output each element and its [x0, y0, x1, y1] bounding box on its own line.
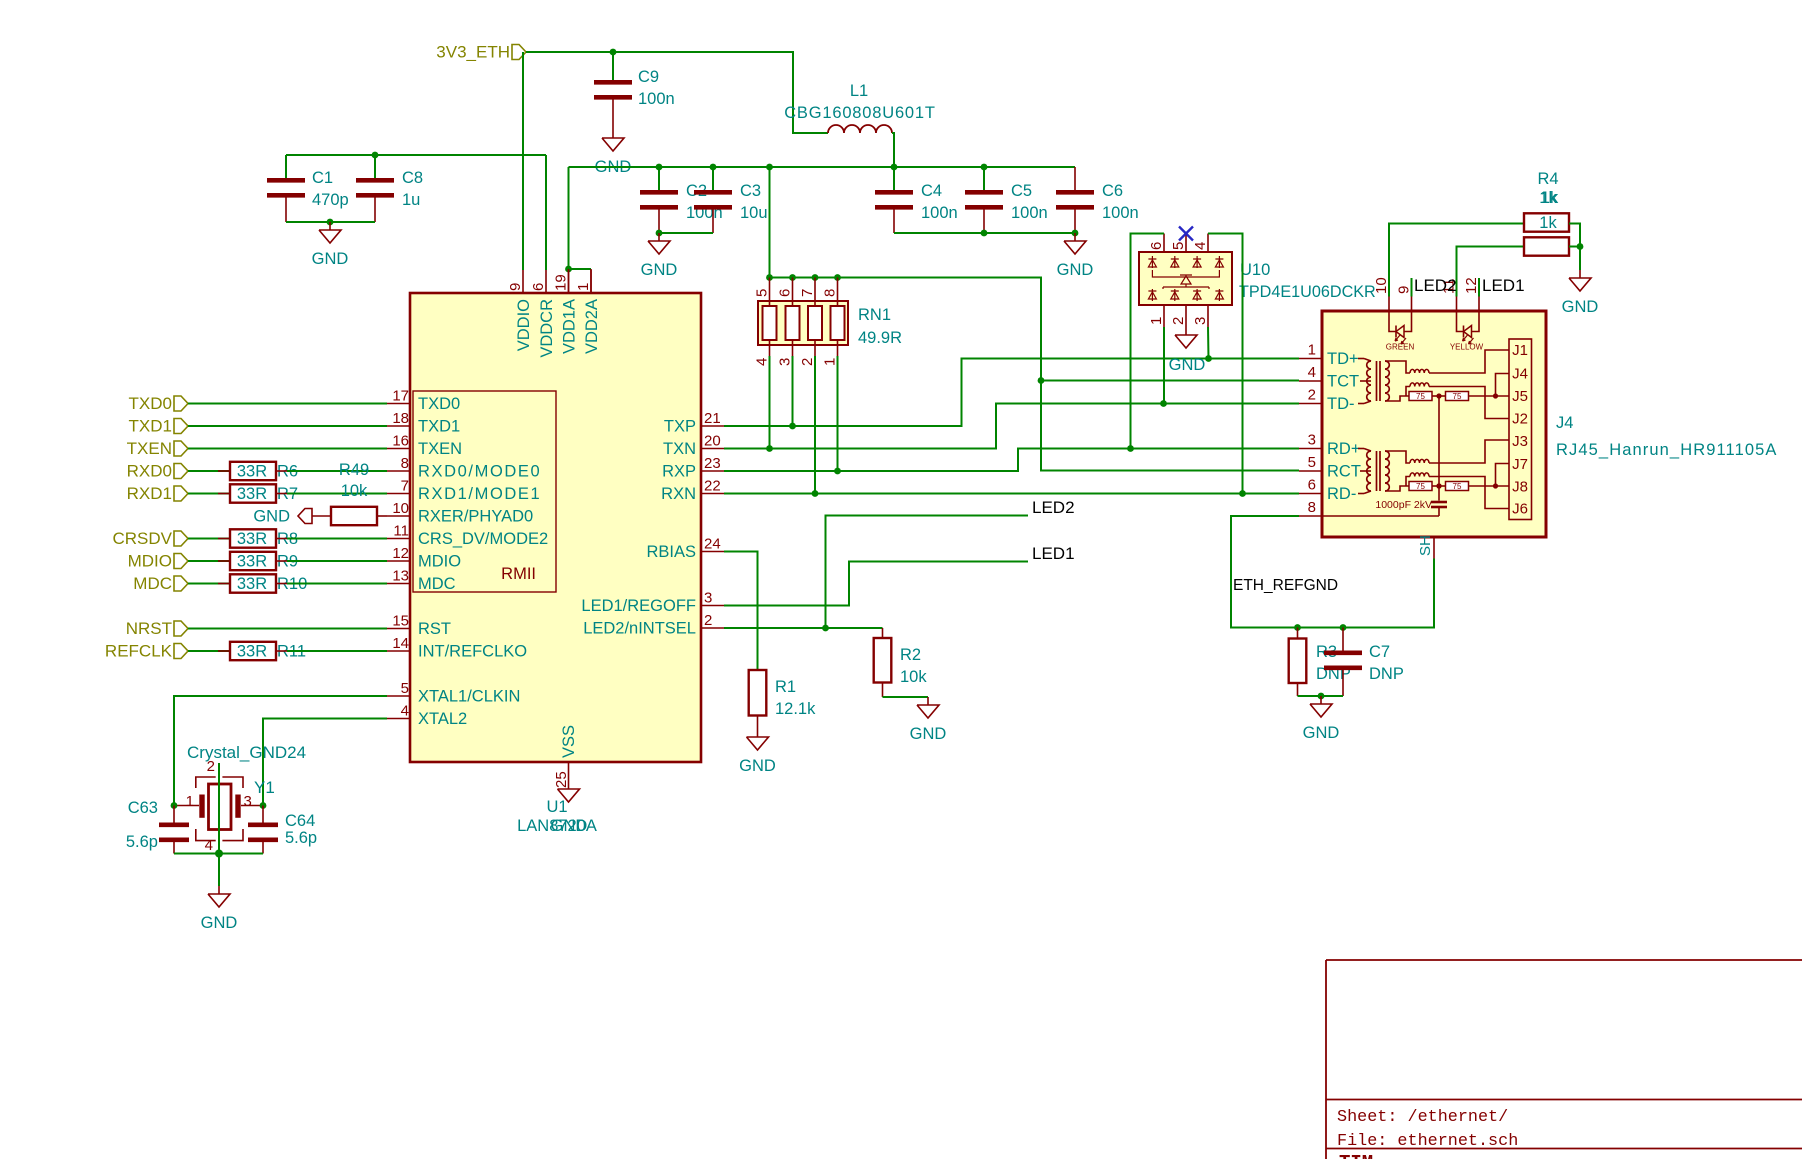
svg-text:19: 19 [553, 274, 570, 291]
svg-text:RBIAS: RBIAS [646, 543, 696, 561]
svg-text:C3: C3 [740, 182, 761, 200]
pin 14 INT/REFCLKO (U1 left) [387, 650, 410, 652]
junction C2 bottom [656, 230, 663, 237]
wire TCT to J4 pin4 [1041, 380, 1299, 382]
capacitor C3 10u [712, 167, 714, 190]
pin 4 J4 left [1299, 380, 1322, 382]
svg-text:8: 8 [1308, 499, 1316, 516]
svg-text:1: 1 [186, 793, 194, 810]
svg-text:J2: J2 [1512, 411, 1528, 428]
resistor R4 1k (bottom) [1524, 237, 1569, 255]
wire VDD1A/VDD2A [569, 167, 592, 269]
wire U10 pin6 to RD+ [1131, 234, 1165, 449]
svg-text:TXD1: TXD1 [129, 417, 172, 436]
ground below R2 [927, 697, 929, 705]
pin 10 RXER/PHYAD0 (U1 left) [387, 515, 410, 517]
svg-text:TXEN: TXEN [418, 440, 462, 458]
pin 11 CRS_DV/MODE2 (U1 left) [387, 538, 410, 540]
svg-text:DNP: DNP [1369, 665, 1404, 683]
svg-text:9: 9 [507, 283, 524, 291]
capacitor C7 DNP [1342, 628, 1344, 651]
J4 secondary bottom to 75R row [1385, 486, 1409, 491]
J4 secondary to choke1 [1385, 451, 1410, 463]
wire TXD1 [188, 425, 387, 427]
pin 7 RXD1/MODE1|ls (U1 left) [387, 493, 410, 495]
svg-text:VSS: VSS [560, 725, 578, 758]
ground below U1 VSS [568, 781, 570, 789]
svg-text:J4: J4 [1512, 366, 1528, 383]
svg-text:3: 3 [1192, 317, 1209, 325]
svg-text:R4: R4 [1537, 170, 1558, 188]
resistor R10 33R [188, 583, 230, 585]
svg-text:5.6p: 5.6p [285, 829, 317, 847]
pin 8 J4 left [1299, 515, 1322, 517]
wire LED1 from pin3 [724, 562, 1028, 606]
svg-text:4: 4 [754, 358, 771, 366]
capacitor C5 100n [983, 167, 985, 190]
ic U1 LAN8720A body [410, 293, 701, 762]
capacitor C9 100n [612, 52, 614, 80]
svg-text:L1: L1 [850, 82, 868, 100]
svg-text:RXP: RXP [662, 463, 696, 481]
svg-text:RXD0/MODE0: RXD0/MODE0 [418, 463, 541, 481]
svg-text:GND: GND [739, 757, 776, 775]
pin 4 XTAL2 (U1 left) [387, 718, 410, 720]
junction TD+/U10 pin3 [1205, 355, 1212, 362]
svg-text:MDIO: MDIO [128, 552, 172, 571]
pin 4 U10 top [1207, 234, 1209, 253]
title block frame [1325, 960, 1327, 1159]
pin 2 LED2/nINTSEL (U1 right) [701, 627, 724, 629]
junction rail at C5 [981, 164, 988, 171]
wire TXEN [188, 448, 387, 450]
ic U10 TPD4E1U06DCKR body [1139, 252, 1232, 305]
svg-text:11: 11 [393, 523, 409, 540]
J4 choke1 to jack pin [1429, 440, 1509, 463]
junction RD-/U10 pin4 [1239, 490, 1246, 497]
wire RBIAS to R1 [724, 552, 758, 671]
svg-text:33R: 33R [237, 530, 267, 548]
svg-text:R2: R2 [900, 646, 921, 664]
svg-text:TD-: TD- [1327, 395, 1355, 413]
wire rail 3V3 after L1 [569, 166, 1076, 168]
pin 6 VDDCR (U1 top) [545, 270, 547, 293]
junction C8 top [372, 152, 379, 159]
svg-text:TPD4E1U06DCKR: TPD4E1U06DCKR [1239, 283, 1376, 301]
svg-text:TXD1: TXD1 [418, 418, 460, 436]
svg-text:U1: U1 [546, 798, 567, 816]
wire XTAL2 to crystal [263, 719, 387, 806]
svg-text:RXD0: RXD0 [127, 462, 172, 481]
wire RN1 pin2 to RXN [814, 356, 816, 494]
J4 secondary to choke1 [1385, 361, 1410, 373]
svg-text:5.6p: 5.6p [126, 833, 158, 851]
svg-text:C1: C1 [312, 169, 333, 187]
svg-text:LED2/nINTSEL: LED2/nINTSEL [583, 620, 696, 638]
svg-text:1: 1 [1148, 317, 1165, 325]
svg-text:CRS_DV/MODE2: CRS_DV/MODE2 [418, 530, 548, 548]
svg-text:RMII: RMII [501, 565, 536, 583]
junction rail at RN1 feed [766, 164, 773, 171]
svg-text:100n: 100n [638, 90, 675, 108]
junction XTAL1 / C63 [171, 802, 178, 809]
svg-text:VDD2A: VDD2A [583, 299, 601, 354]
J4 choke1 [1410, 369, 1429, 373]
svg-text:15: 15 [392, 613, 409, 630]
svg-text:49.9R: 49.9R [858, 329, 902, 347]
J4 internal green LED [1389, 311, 1396, 332]
svg-text:24: 24 [704, 536, 721, 553]
svg-text:20: 20 [704, 433, 721, 450]
ground below R1 [757, 729, 759, 737]
svg-text:1k: 1k [1541, 189, 1559, 207]
svg-text:C7: C7 [1369, 643, 1390, 661]
pin 6 U10 top [1163, 234, 1165, 253]
wire 3V3 rail to RN1 bus [769, 167, 771, 278]
capacitor C8 1u [374, 155, 376, 178]
junction rail at L1/C4 [891, 164, 898, 171]
svg-text:R1: R1 [775, 678, 796, 696]
svg-text:6: 6 [530, 283, 547, 291]
svg-text:17: 17 [392, 388, 409, 405]
svg-text:XTAL1/CLKIN: XTAL1/CLKIN [418, 688, 520, 706]
svg-text:GND: GND [910, 725, 947, 743]
J4 choke2 [1410, 383, 1429, 387]
U10 internal zener [1152, 270, 1219, 289]
J4 choke1 [1410, 459, 1429, 463]
wire LED2 stub at J4 pin9 [1411, 278, 1413, 297]
pin 9 J4 top [1411, 297, 1413, 312]
pin 11 J4 top [1456, 297, 1458, 312]
svg-text:6: 6 [1148, 242, 1165, 250]
svg-text:J1: J1 [1512, 342, 1528, 359]
J4 transformer primary coil [1358, 358, 1364, 360]
ground below R4 [1579, 270, 1581, 278]
svg-text:J8: J8 [1512, 479, 1528, 496]
J4 center jack pin bracket [1496, 374, 1510, 397]
svg-text:MDC: MDC [133, 574, 172, 593]
svg-text:3: 3 [777, 358, 794, 366]
svg-text:Y1: Y1 [254, 778, 275, 797]
resistor network RN1 49.9R [758, 301, 848, 345]
svg-text:R49: R49 [339, 461, 369, 479]
pin 23 RXP (U1 right) [701, 470, 724, 472]
J4 secondary bottom to 75R row [1385, 396, 1409, 401]
svg-text:18: 18 [392, 410, 409, 427]
svg-text:3: 3 [1308, 432, 1316, 449]
svg-text:9: 9 [1396, 286, 1413, 294]
resistor R7 33R [188, 493, 230, 495]
svg-text:10k: 10k [900, 668, 927, 686]
svg-text:75: 75 [1453, 392, 1462, 401]
svg-text:GND: GND [1562, 298, 1599, 316]
svg-text:RD-: RD- [1327, 485, 1356, 503]
svg-text:33R: 33R [237, 485, 267, 503]
wire J4 pin8 to ETH_REFGND to SH [1231, 516, 1434, 628]
pin 10 J4 top [1388, 297, 1390, 312]
J4 75R resistors [1409, 482, 1432, 491]
svg-text:TCT: TCT [1327, 373, 1359, 391]
svg-text:7: 7 [401, 478, 409, 495]
J4 choke2 [1410, 473, 1429, 477]
pin 20 TXN (U1 right) [701, 448, 724, 450]
junction RN1 pin5 [766, 274, 773, 281]
svg-text:C4: C4 [921, 182, 942, 200]
svg-text:TXD0: TXD0 [129, 394, 172, 413]
svg-text:File: ethernet.sch: File: ethernet.sch [1337, 1132, 1518, 1151]
svg-text:22: 22 [704, 478, 721, 495]
junction RXN/RN1 [812, 490, 819, 497]
capacitor C1 470p [285, 155, 287, 178]
pin 13 MDC (U1 left) [387, 583, 410, 585]
resistor R2 10k [882, 628, 884, 638]
J4 75R resistors [1409, 392, 1432, 401]
svg-text:TD+: TD+ [1327, 350, 1359, 368]
connector J4 RJ45_Hanrun_HR911105A body [1322, 311, 1546, 537]
pin 2 J4 left [1299, 403, 1322, 405]
junction RD+/U10 pin6 [1127, 445, 1134, 452]
svg-text:12: 12 [1463, 277, 1480, 294]
svg-text:LED1: LED1 [1032, 544, 1075, 563]
svg-text:C5: C5 [1011, 182, 1032, 200]
wire LED2 from pin2 [826, 516, 1029, 629]
J4 transformer core [1376, 451, 1378, 491]
svg-text:4: 4 [401, 703, 409, 720]
svg-text:RST: RST [418, 620, 451, 638]
junction R3 [1294, 624, 1301, 631]
svg-text:33R: 33R [237, 643, 267, 661]
svg-text:VDDIO: VDDIO [515, 299, 533, 351]
svg-text:RCT: RCT [1327, 463, 1361, 481]
svg-text:1k: 1k [1539, 214, 1557, 232]
resistor R6 33R [188, 470, 230, 472]
wire 3V3_ETH to L1 [526, 52, 828, 133]
pin 22 RXN (U1 right) [701, 493, 724, 495]
junction rail at C3 [710, 164, 717, 171]
svg-text:C63: C63 [128, 799, 158, 817]
wire C1/C8 bottom [286, 221, 375, 223]
svg-text:2: 2 [799, 358, 816, 366]
pin 5 J4 left [1299, 470, 1322, 472]
svg-text:4: 4 [205, 837, 213, 854]
svg-text:RJ45_Hanrun_HR911105A: RJ45_Hanrun_HR911105A [1556, 441, 1778, 459]
svg-text:33R: 33R [237, 553, 267, 571]
svg-text:1: 1 [575, 283, 592, 291]
svg-text:75: 75 [1416, 392, 1425, 401]
wire U10 pin3 to TD+ [1207, 327, 1210, 359]
J4 transformer secondary coil [1385, 451, 1389, 491]
pin 8 RXD0/MODE0|ls (U1 left) [387, 470, 410, 472]
svg-text:100n: 100n [1102, 204, 1139, 222]
pin 24 RBIAS (U1 right) [701, 551, 724, 553]
pin 2 U10 bottom [1185, 305, 1187, 327]
svg-text:RXN: RXN [661, 485, 696, 503]
wire NRST [188, 628, 387, 630]
svg-text:16: 16 [392, 433, 409, 450]
svg-text:Crystal_GND24: Crystal_GND24 [187, 743, 306, 762]
svg-text:33R: 33R [237, 575, 267, 593]
junction C6 bottom [1072, 230, 1079, 237]
svg-text:5: 5 [1308, 454, 1316, 471]
wire crystal pin2 to gnd node [218, 763, 220, 854]
capacitor C6 100n [1074, 167, 1076, 190]
svg-text:MDC: MDC [418, 575, 456, 593]
svg-text:TXP: TXP [664, 418, 696, 436]
ground below C6 [1074, 233, 1076, 241]
svg-text:CBG160808U601T: CBG160808U601T [784, 104, 936, 122]
svg-text:33R: 33R [237, 463, 267, 481]
resistor R8 33R [188, 538, 230, 540]
junction TXN/RN1 [766, 445, 773, 452]
svg-text:10: 10 [1373, 277, 1390, 294]
svg-text:2: 2 [1308, 387, 1316, 404]
svg-text:1u: 1u [402, 191, 420, 209]
junction R4 right [1577, 243, 1584, 250]
junction at C9 top [610, 49, 617, 56]
svg-text:SH: SH [1417, 535, 1434, 556]
pin 5 U10 top [1185, 234, 1187, 253]
junction RN1 pin8 [834, 274, 841, 281]
svg-text:C9: C9 [638, 68, 659, 86]
ic U1 RMII group box [413, 391, 556, 592]
ground below U10 pin2 [1185, 327, 1187, 335]
svg-text:75: 75 [1453, 482, 1462, 491]
ground below C9 [612, 130, 614, 138]
svg-text:LED1/REGOFF: LED1/REGOFF [581, 597, 696, 615]
svg-text:5: 5 [1170, 242, 1187, 250]
pin 12 J4 top [1478, 297, 1480, 312]
J4 transformer secondary coil [1385, 361, 1389, 401]
junction RXP/RN1 [834, 468, 841, 475]
svg-text:3: 3 [244, 793, 252, 810]
pin 18 TXD1 (U1 left) [387, 425, 410, 427]
svg-text:TXEN: TXEN [127, 439, 172, 458]
wire RXN to J4 RD- [724, 493, 1299, 495]
svg-text:GND: GND [1303, 724, 1340, 742]
wire TXP to J4 TD+ [724, 359, 1299, 427]
svg-text:4: 4 [1192, 242, 1209, 250]
pin 3 U10 bottom [1207, 305, 1209, 327]
junction TCT tap [1038, 377, 1045, 384]
wire pin2 to R2 [724, 627, 883, 629]
J4 choke1 to jack pin [1429, 350, 1509, 373]
svg-text:1: 1 [1308, 342, 1316, 359]
wire R4B to J4 pin11 [1457, 247, 1525, 297]
svg-text:14: 14 [392, 635, 409, 652]
svg-text:C6: C6 [1102, 182, 1123, 200]
svg-text:J4: J4 [1556, 414, 1573, 432]
wire RN1 pin3 to TXP [792, 356, 794, 426]
wire TXN to J4 TD- [724, 404, 1299, 449]
svg-text:VDDCR: VDDCR [538, 299, 556, 358]
svg-text:10u: 10u [740, 204, 768, 222]
pin 1 VDD2A (U1 top) [590, 270, 592, 293]
pin 3 J4 left [1299, 448, 1322, 450]
junction C7 [1340, 624, 1347, 631]
svg-text:8: 8 [401, 455, 409, 472]
J4 transformer primary coil [1358, 448, 1364, 450]
svg-text:2: 2 [1170, 317, 1187, 325]
pin 19 VDD1A (U1 top) [568, 270, 570, 293]
svg-text:8: 8 [822, 289, 839, 297]
pin 5 XTAL1/CLKIN (U1 left) [387, 695, 410, 697]
junction crystal gnd [215, 850, 223, 858]
svg-text:J3: J3 [1512, 433, 1528, 450]
svg-text:C8: C8 [402, 169, 423, 187]
resistor R3 DNP [1297, 628, 1299, 639]
svg-text:U10: U10 [1240, 261, 1270, 279]
resistor R11 33R [188, 650, 230, 652]
wire L1 out to rail [892, 133, 894, 167]
junction RN1 pin6 [789, 274, 796, 281]
svg-text:RXD1/MODE1: RXD1/MODE1 [418, 485, 541, 503]
svg-text:GND: GND [1057, 261, 1094, 279]
wire U10 pin4 to RD- [1208, 234, 1243, 494]
svg-text:25: 25 [553, 771, 570, 788]
pin 6 J4 left [1299, 493, 1322, 495]
svg-text:GND: GND [641, 261, 678, 279]
ground below R3/C7 [1320, 696, 1322, 704]
wire TXD0 [188, 403, 387, 405]
svg-text:2: 2 [207, 758, 215, 775]
svg-text:10: 10 [392, 500, 409, 517]
svg-text:LED1: LED1 [1482, 276, 1525, 295]
J4 internal jack pin column [1509, 339, 1532, 520]
svg-text:LED2: LED2 [1414, 276, 1457, 295]
junction LED2/R2 [822, 625, 829, 632]
svg-text:6: 6 [1308, 477, 1316, 494]
wire RN1 pin1 to RXP [837, 356, 839, 471]
wire RXP to J4 RD+ [724, 449, 1299, 472]
svg-text:100n: 100n [1011, 204, 1048, 222]
wire LED1 stub at J4 pin12 [1478, 278, 1480, 297]
svg-text:MDIO: MDIO [418, 553, 461, 571]
svg-text:10k: 10k [341, 482, 368, 500]
svg-text:LAN8720A: LAN8720A [517, 817, 597, 835]
resistor R1 12.1k [749, 670, 767, 716]
wire C4/C5/C6 bottom [894, 232, 1075, 234]
svg-text:100n: 100n [921, 204, 958, 222]
resistor R9 33R [188, 560, 230, 562]
junction XTAL2 / C64 [260, 802, 267, 809]
svg-text:GND: GND [312, 250, 349, 268]
pin 25 VSS (U1 bottom) [568, 762, 570, 781]
wire R4A to J4 pin10 [1389, 224, 1524, 297]
svg-text:RXER/PHYAD0: RXER/PHYAD0 [418, 508, 533, 526]
svg-text:5: 5 [754, 289, 771, 297]
J4 choke2 to jack pin [1429, 387, 1509, 419]
svg-text:6: 6 [777, 289, 794, 297]
wire U10 pin1 to TD- [1163, 327, 1165, 404]
ground below crystal [218, 854, 220, 887]
svg-text:3V3_ETH: 3V3_ETH [436, 43, 510, 62]
junction C1/C8 gnd [327, 219, 334, 226]
svg-text:Sheet: /ethernet/: Sheet: /ethernet/ [1337, 1108, 1508, 1127]
pin SH J4 bottom [1433, 537, 1435, 559]
svg-text:1: 1 [822, 358, 839, 366]
svg-text:TXN: TXN [663, 440, 696, 458]
J4 internal 1000pF 2kV cap [1438, 396, 1440, 501]
svg-text:J6: J6 [1512, 501, 1528, 518]
svg-text:13: 13 [392, 568, 409, 585]
junction C5 bottom [981, 230, 988, 237]
svg-text:INT/REFCLKO: INT/REFCLKO [418, 643, 527, 661]
capacitor C2 100n [658, 167, 660, 190]
svg-text:RN1: RN1 [858, 306, 891, 324]
svg-text:4: 4 [1308, 364, 1316, 381]
svg-text:GND: GND [253, 508, 290, 526]
pin 3 LED1/REGOFF (U1 right) [701, 605, 724, 607]
